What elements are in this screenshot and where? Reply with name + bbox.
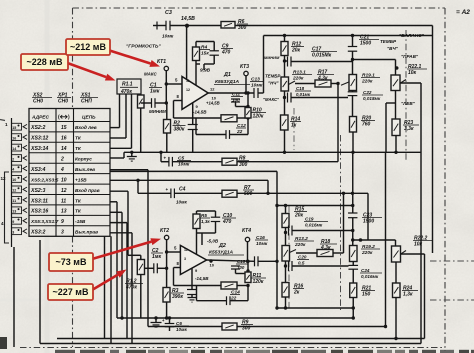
svg-text:300: 300 (242, 326, 251, 332)
tone pot R13.1 220k (284, 61, 286, 77)
capacitor C7 supply decoupling (188, 124, 198, 126)
svg-text:"ВЧ": "ВЧ" (387, 46, 399, 51)
lower chain C23 1500 (352, 206, 354, 214)
svg-text:"БАЛАНС": "БАЛАНС" (399, 33, 425, 39)
capacitor C19 0.016uF (288, 226, 290, 236)
svg-text:С18: С18 (296, 86, 305, 91)
svg-text:10мк: 10мк (251, 83, 263, 89)
op-amp U2 K553UD1A (180, 245, 206, 274)
resistor R6 300 (221, 22, 235, 29)
svg-text:380к: 380к (174, 127, 185, 133)
balance pot R22.1 body (391, 75, 400, 91)
wire left-out down (385, 152, 387, 326)
wire mixing vertical (276, 171, 278, 308)
svg-text:10мк: 10мк (256, 241, 268, 247)
wire +15V row (110, 179, 268, 181)
svg-text:1,3к: 1,3к (403, 292, 413, 298)
wire right rail from +14.5V (432, 26, 434, 254)
resistor R5 1.3k bias (197, 210, 216, 212)
right edge dash-dot stub y261 (430, 260, 474, 262)
svg-text:КТ3: КТ3 (240, 64, 249, 70)
capacitor C16 10uF output coupling (254, 256, 256, 266)
svg-text:13: 13 (61, 209, 67, 215)
svg-text:ХS3:2: ХS3:2 (30, 230, 46, 236)
tone-block dash-dot boundary upper (405, 30, 407, 160)
treble chain C21 1500 (352, 36, 354, 47)
bottom bus wire 2 (40, 343, 421, 345)
capacitor C12 22 (225, 130, 227, 139)
resistor R24 1.3k (395, 262, 397, 283)
svg-text:11: 11 (12, 199, 16, 203)
svg-text:С22: С22 (363, 90, 372, 95)
capacitor C5 10uF (159, 151, 162, 154)
svg-text:4,3к: 4,3к (317, 76, 328, 82)
scan artifact bottom-left blob (0, 337, 7, 349)
svg-text:ТК: ТК (75, 209, 82, 215)
svg-text:1500: 1500 (360, 41, 371, 47)
svg-text:150: 150 (362, 292, 371, 298)
wire Vykh.prav row down (110, 232, 132, 234)
svg-text:КТ2: КТ2 (160, 228, 169, 234)
connector bracket and pin-group numbers (5, 172, 10, 243)
capacitor C22 0.018uF (352, 91, 354, 92)
svg-text:ХS2:3: ХS2:3 (30, 188, 46, 194)
svg-text:10к: 10к (414, 242, 423, 248)
svg-text:120к: 120к (253, 114, 264, 120)
svg-text:15к: 15к (201, 51, 209, 57)
svg-text:4: 4 (1, 221, 4, 226)
svg-text:С6: С6 (176, 321, 182, 326)
svg-text:0,01мк: 0,01мк (296, 92, 311, 97)
svg-text:2: 2 (12, 157, 14, 161)
wire U1 balance pin (195, 74, 197, 85)
wire U1 inverting input (174, 100, 183, 102)
resistor R8 300 (222, 158, 237, 165)
svg-text:10: 10 (61, 177, 67, 183)
svg-text:22: 22 (236, 129, 243, 135)
svg-text:0,016мк: 0,016мк (361, 274, 379, 279)
svg-text:16: 16 (61, 136, 67, 142)
svg-text:"ЛЕВ": "ЛЕВ" (401, 101, 416, 106)
svg-text:500: 500 (244, 191, 253, 197)
svg-text:ТК: ТК (75, 136, 82, 142)
capacitor C17 0.015uF (287, 57, 289, 67)
svg-text:Вход лев: Вход лев (75, 125, 97, 131)
svg-text:10к: 10к (408, 70, 417, 76)
svg-text:10: 10 (210, 263, 215, 268)
callout ~228 mV (21, 54, 68, 70)
svg-text:R1.1: R1.1 (122, 82, 133, 88)
svg-text:0,018мк: 0,018мк (363, 96, 381, 101)
wire U1 negative supply pin 9 (192, 103, 194, 125)
resistor R4 15k (196, 41, 214, 43)
left edge tick mark (0, 120, 5, 121)
svg-text:ЦЕПЬ: ЦЕПЬ (82, 115, 96, 121)
left output line R9 500 (110, 169, 148, 171)
svg-text:0,015Мк: 0,015Мк (312, 53, 332, 59)
svg-text:14: 14 (12, 147, 16, 151)
tone network top rail (264, 35, 433, 37)
wire table bottom loop b (110, 236, 112, 343)
svg-text:220к: 220к (294, 242, 306, 248)
svg-text:~228 мВ: ~228 мВ (27, 57, 63, 67)
tone pot R13.2 220k (285, 233, 287, 246)
svg-text:11: 11 (61, 198, 66, 204)
connector shield line (39, 240, 41, 344)
svg-text:К553УД1А: К553УД1А (209, 250, 234, 256)
wire table Korpus row to rail (110, 157, 124, 159)
wire U1 non-inverting input (166, 83, 182, 85)
feedback resistor lower (174, 285, 222, 287)
wire R18 to R7 rail (343, 193, 345, 253)
measurement arrow to KT2 (92, 242, 151, 259)
svg-text:+15В: +15В (75, 177, 87, 183)
svg-text:14: 14 (61, 146, 67, 152)
svg-text:12: 12 (1, 176, 7, 181)
svg-text:ТК: ТК (75, 146, 82, 152)
svg-text:Д1: Д1 (223, 72, 231, 78)
svg-text:ХS5:2,ХS3:5: ХS5:2,ХS3:5 (30, 177, 59, 182)
svg-text:~212 мВ: ~212 мВ (70, 42, 106, 52)
wire treble to balance pot (351, 58, 354, 61)
svg-text:1500: 1500 (363, 219, 374, 225)
svg-text:9: 9 (61, 219, 64, 225)
svg-text:КТ4: КТ4 (242, 228, 251, 234)
svg-text:300: 300 (239, 162, 248, 168)
resistor R14 1k (281, 115, 289, 130)
svg-text:ТЕМБР: ТЕМБР (380, 39, 397, 44)
svg-text:3: 3 (184, 257, 186, 261)
svg-text:760: 760 (362, 122, 371, 128)
svg-text:100: 100 (232, 98, 240, 103)
svg-text:"МАКС": "МАКС" (263, 97, 280, 102)
wire U1 output (208, 92, 254, 94)
svg-text:МИНИМ: МИНИМ (149, 109, 166, 114)
svg-text:12: 12 (12, 189, 16, 193)
svg-text:470: 470 (221, 50, 231, 56)
capacitor C3 10uF (165, 21, 167, 31)
svg-text:СНП: СНП (81, 99, 92, 105)
module border A2 dash-dot frame (73, 7, 446, 9)
svg-text:22: 22 (230, 296, 237, 302)
svg-text:МИНИМ: МИНИМ (264, 55, 280, 60)
resistor R3 390k (166, 268, 168, 287)
wire R22.1 bottom to left-out line (395, 91, 397, 120)
svg-text:1: 1 (5, 122, 8, 127)
svg-text:~227 мВ: ~227 мВ (53, 287, 89, 297)
potentiometer R1.2 470k (volume right) (110, 190, 128, 192)
svg-text:R5: R5 (201, 213, 207, 218)
svg-text:КТ1: КТ1 (157, 59, 166, 65)
connector XS contacts column (11, 118, 13, 247)
svg-text:~73 мВ: ~73 мВ (56, 257, 87, 267)
wire U2 output (207, 260, 255, 261)
resistor R21 150 (350, 283, 357, 298)
capacitor C9 470 (213, 42, 215, 51)
svg-text:2к: 2к (293, 290, 300, 296)
svg-text:Корпус: Корпус (75, 156, 92, 162)
node +14.5V junction (185, 24, 189, 28)
resistor R10 120k (247, 93, 249, 108)
svg-text:20к: 20к (291, 48, 301, 54)
wire output to tone network (263, 36, 265, 94)
pot R19.2 220k (350, 246, 358, 262)
resistor R11 120k (247, 261, 249, 272)
svg-text:220к: 220к (361, 79, 373, 85)
svg-text:20к: 20к (294, 213, 304, 219)
measurement arrow to KT1 (108, 50, 150, 63)
op-amp U1 K553UD1A (182, 77, 208, 110)
capacitor C14 22 (226, 296, 228, 305)
capacitor C8 supply decoupling (187, 289, 197, 291)
resistor R23 3.3k (392, 119, 400, 136)
wire +14.5V to op-amp U1 (186, 26, 188, 79)
svg-text:С3: С3 (165, 10, 172, 16)
svg-text:16: 16 (12, 136, 16, 140)
bass feedback rail R8 (172, 161, 222, 163)
capacitor C13 10uF output coupling (253, 88, 255, 98)
resistor R7 500 (174, 192, 222, 194)
feedback loop wire upper (195, 118, 197, 135)
wire R7 rail to lower balance (367, 193, 369, 240)
svg-text:ХS3:12: ХS3:12 (30, 136, 48, 142)
paper fold shading (45, 0, 50, 353)
svg-text:СН0: СН0 (33, 99, 43, 105)
feedback loop wire lower (196, 286, 198, 301)
capacitor C6 10uF (169, 318, 171, 323)
svg-text:12: 12 (210, 87, 215, 92)
svg-text:10мк: 10мк (176, 200, 188, 205)
svg-text:ХS3:14: ХS3:14 (30, 146, 48, 152)
svg-text:15: 15 (61, 125, 67, 131)
svg-text:390к: 390к (172, 294, 183, 300)
svg-text:470: 470 (222, 219, 232, 225)
svg-text:300: 300 (238, 25, 247, 31)
svg-text:-14,5В: -14,5В (193, 110, 207, 115)
svg-text:9,9В: 9,9В (200, 68, 211, 74)
resistor R9 300 (222, 323, 237, 330)
svg-text:10мк: 10мк (176, 327, 188, 332)
ground bus lower (117, 317, 353, 319)
svg-text:ХS2:2: ХS2:2 (30, 125, 46, 131)
svg-text:470к: 470к (120, 89, 132, 95)
wire table bottom loop a (104, 236, 106, 338)
capacitor C15 100 (231, 265, 240, 267)
svg-text:13: 13 (12, 210, 16, 214)
svg-text:3,3к: 3,3к (404, 126, 414, 132)
potentiometer R1.1 470k (volume) (117, 79, 141, 94)
wire U2 non-inverting input (167, 251, 181, 253)
svg-text:4: 4 (60, 167, 64, 173)
tone-block dash-dot boundary lower (340, 135, 342, 310)
svg-text:"ПРАВ": "ПРАВ" (401, 54, 419, 59)
svg-text:220к: 220к (361, 250, 373, 256)
svg-text:4: 4 (12, 168, 14, 172)
svg-text:ХS3:4: ХS3:4 (30, 167, 46, 173)
svg-text:С19: С19 (305, 216, 314, 221)
svg-text:С20: С20 (298, 254, 307, 259)
wire U2 inverting input (174, 267, 181, 269)
svg-text:10: 10 (12, 178, 16, 182)
capacitor C2 1uF (145, 267, 154, 269)
wire -15V row down (110, 222, 127, 224)
svg-text:ТК: ТК (75, 198, 82, 204)
svg-text:220к: 220к (292, 76, 304, 82)
svg-text:0,5: 0,5 (298, 261, 305, 266)
svg-text:"НЧ": "НЧ" (268, 81, 279, 86)
svg-text:1мк: 1мк (152, 254, 161, 260)
resistor R20 760 (350, 117, 357, 133)
wire R22.1 wiper to right-channel line (401, 82, 422, 84)
capacitor C11 100 (231, 98, 240, 100)
right edge dash-dot stub y300 (430, 299, 474, 301)
wire lower balance feed (351, 238, 354, 241)
svg-text:3: 3 (61, 230, 64, 236)
resistor R15 20k (285, 206, 287, 214)
wire TK rows to ground bus (110, 201, 117, 203)
svg-text:= А2: = А2 (456, 9, 470, 16)
svg-text:120к: 120к (253, 279, 264, 285)
chassis ground symbol upper (130, 151, 133, 154)
scan artifact bottom edge dashes (55, 350, 75, 353)
svg-text:11: 11 (186, 79, 190, 83)
wire U2 supply pin (191, 268, 193, 289)
wire treble chain down to lower block (352, 152, 354, 205)
svg-text:СН0: СН0 (58, 99, 68, 105)
lower block bottom rail (277, 307, 353, 309)
wire lower block top rail (277, 205, 353, 207)
svg-text:+: + (164, 156, 167, 161)
resistor R16 2k (282, 283, 289, 298)
svg-text:0,016мк: 0,016мк (305, 223, 323, 228)
svg-text:ХS3:11: ХS3:11 (30, 198, 48, 204)
ground-common rail (124, 151, 421, 153)
svg-text:15: 15 (12, 126, 16, 130)
measurement arrow to R1.2 input (92, 275, 118, 290)
callout ~212 mV (66, 39, 110, 55)
wire R17 to bass rail (337, 84, 339, 162)
svg-text:Вход прав: Вход прав (75, 188, 100, 194)
svg-text:+: + (166, 187, 169, 192)
callout ~73 mV (49, 253, 93, 271)
capacitor C20 0.5 (285, 261, 287, 283)
resistor R18 4.3k (296, 252, 317, 254)
svg-text:12: 12 (186, 88, 190, 92)
svg-text:1мк: 1мк (150, 89, 160, 95)
svg-text:+14,5В: +14,5В (206, 101, 220, 106)
svg-text:1,3к: 1,3к (201, 219, 210, 224)
svg-text:1к: 1к (291, 123, 297, 129)
svg-text:-14,5В: -14,5В (195, 276, 209, 281)
svg-text:Вых.прав: Вых.прав (75, 230, 98, 236)
resistor R12 20k (284, 36, 286, 42)
svg-text:10мк: 10мк (178, 162, 190, 168)
capacitor C1 1uF (141, 102, 152, 104)
capacitor C10 470 (215, 211, 217, 217)
svg-text:11: 11 (184, 248, 188, 252)
svg-text:4,3к: 4,3к (320, 245, 331, 251)
bottom bus wire 1 (57, 338, 425, 340)
svg-text:ТЕМБР: ТЕМБР (265, 74, 280, 79)
feedback resistor upper (174, 117, 222, 119)
svg-text:С4: С4 (179, 187, 186, 193)
capacitor C4 10uF (137, 180, 139, 193)
svg-text:АДРЕС: АДРЕС (31, 115, 50, 121)
svg-text:К553УД1А: К553УД1А (215, 79, 240, 85)
pot R19.1 220k (349, 75, 357, 91)
svg-text:3: 3 (12, 230, 14, 234)
svg-text:Д2: Д2 (218, 243, 226, 249)
svg-text:С11: С11 (232, 91, 241, 96)
svg-text:100: 100 (237, 265, 245, 270)
resistor R2 380k (166, 103, 168, 120)
wire +14.5V top rail (153, 25, 166, 27)
svg-text:С24: С24 (361, 268, 370, 273)
svg-text:-15В: -15В (75, 219, 86, 225)
measurement arrow to R1.1 input (66, 63, 106, 78)
svg-text:2: 2 (60, 156, 64, 162)
connector frame line down (13, 247, 15, 347)
balance pot R22.1 10k terminal (395, 66, 399, 70)
svg-text:14,5В: 14,5В (181, 16, 195, 22)
connector pin table frame (29, 109, 110, 237)
svg-text:12: 12 (61, 188, 67, 194)
svg-text:10мк: 10мк (162, 34, 174, 40)
svg-text:-5,0В: -5,0В (207, 239, 219, 244)
svg-text:"ГРОМКОСТЬ": "ГРОМКОСТЬ" (126, 44, 161, 50)
wire R22.2 wiper to output (401, 253, 425, 255)
capacitor C24 0.016uF (352, 262, 354, 266)
wire TK row rail (110, 170, 277, 172)
dash-dot segment lower-left of tone block (288, 206, 290, 308)
ground symbol below C8 (188, 297, 197, 299)
svg-text:ХS5:3,ХS1:7: ХS5:3,ХS1:7 (30, 219, 59, 224)
chassis ground symbol lower (155, 318, 157, 323)
svg-text:Вых.лев: Вых.лев (75, 167, 95, 173)
svg-text:МАКС: МАКС (144, 72, 157, 77)
dash-dot segment near R14 (293, 108, 295, 150)
callout ~227 mV (48, 284, 93, 300)
svg-text:ХS3:16: ХS3:16 (30, 209, 48, 215)
wires R1.1 terminals to table (119, 94, 121, 128)
resistor R17 4.3k (295, 83, 315, 85)
svg-text:9: 9 (12, 220, 14, 224)
